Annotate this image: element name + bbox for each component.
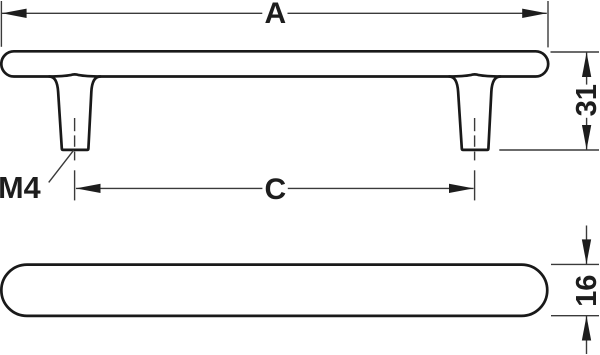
dimension C left arrowhead — [76, 184, 101, 193]
right leg centerline — [474, 118, 476, 200]
dimension 16 bottom arrowhead — [582, 316, 591, 341]
right leg outline — [449, 77, 500, 150]
dimension 31 line — [586, 52, 588, 84]
dimension C right arrowhead — [449, 184, 474, 193]
svg-text:31: 31 — [571, 84, 600, 116]
dimension A left arrowhead — [2, 9, 27, 18]
dimension A right arrowhead — [522, 9, 547, 18]
dimension 16 line — [586, 226, 588, 265]
svg-text:A: A — [264, 0, 286, 30]
dimension 16 bottom extension line — [551, 315, 599, 317]
dimension 16 top extension line — [551, 263, 599, 265]
dimension 31 top arrowhead — [582, 52, 591, 77]
dimension A extension line right — [547, 1, 549, 47]
M4 leader line — [49, 150, 74, 182]
handle bar outline (bottom/front view) — [1, 265, 547, 316]
svg-text:M4: M4 — [0, 171, 41, 205]
dimension 31 top extension line — [551, 51, 600, 53]
svg-text:16: 16 — [571, 275, 600, 307]
dimension A extension line left — [0, 1, 2, 47]
svg-text:C: C — [264, 173, 286, 206]
dimension A line — [2, 12, 262, 14]
left leg centerline — [74, 118, 76, 200]
dimension C line — [76, 187, 263, 189]
dimension 31 bottom arrowhead — [582, 125, 591, 150]
dimension 16 top arrowhead — [582, 239, 591, 264]
handle bar outline (top view) — [1, 51, 548, 76]
left leg outline — [49, 77, 100, 150]
dimension 31 bottom extension line — [499, 149, 599, 151]
